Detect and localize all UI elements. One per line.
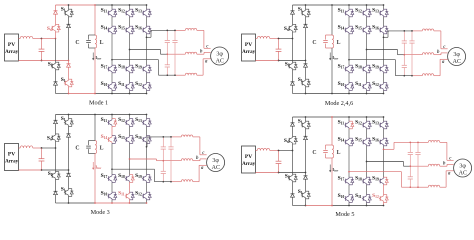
svg-text:Array: Array [5, 160, 19, 165]
Mode 5: junction leg 1 bottom rail [348, 205, 350, 207]
svg-text:Mode 1: Mode 1 [89, 100, 108, 107]
Mode 1: right leg upper wire [68, 5, 70, 9]
Mode 1: filter inductor Lb [185, 52, 197, 54]
Mode 5: junction leg 2 bottom rail [366, 205, 368, 207]
Mode 1: inverter leg 3 wire segment 5 [146, 90, 148, 93]
Mode 1: three-phase AC grid machine [211, 47, 229, 65]
Mode 2,4,6: inverter leg 3 wire segment 3 [383, 34, 385, 65]
Mode 3: inverter leg 3 wire segment 3 [146, 143, 148, 174]
Mode 2,4,6: inverter leg 1 wire segment 3 [348, 34, 350, 65]
svg-text:Iinv: Iinv [95, 164, 101, 170]
Mode 3: left leg upper wire [55, 115, 57, 121]
Mode 3: wire inductor to node A [33, 147, 42, 149]
Mode 5: input capacitor [278, 151, 280, 153]
Mode 3: inverter leg 1 wire segment 5 [111, 200, 113, 203]
Mode 2,4,6: inverter leg 3 wire segment 1 [383, 5, 385, 9]
Mode 2,4,6: bus 3 wire to load terminal a [434, 75, 440, 77]
Mode 3: bottom rail left section [56, 202, 69, 204]
Mode 2,4,6: diode D4 (right leg lower) [305, 61, 307, 64]
svg-text:PV: PV [245, 154, 252, 160]
svg-text:Mode 2,4,6: Mode 2,4,6 [325, 100, 353, 107]
Mode 2,4,6: inverter switch S16 (leg 3 row 2) [383, 26, 385, 27]
Mode 3: inverter leg 2 wire segment 4 [129, 182, 131, 192]
Mode 5: PV array source [242, 146, 256, 173]
Mode 2,4,6: phase bus 1 (top) [388, 30, 412, 32]
Mode 1: left leg middle wire [55, 32, 57, 39]
Mode 1: filter capacitor Cab [166, 30, 168, 40]
Mode 2,4,6: phase tap leg2 to bus2 [367, 49, 398, 51]
Mode 5: switch S3 (right leg bottom) [305, 191, 307, 192]
Mode 2,4,6: left leg middle wire [292, 32, 294, 39]
Mode 2,4,6: filter inductor Lc [422, 74, 434, 76]
Mode 3: inverter leg 3 wire segment 2 [146, 126, 148, 135]
Mode 3: phase tap leg3 to bus1 [146, 146, 149, 148]
Mode 2,4,6: junction leg 2 bottom rail [366, 93, 368, 95]
Mode 5: top rail left section [293, 116, 333, 118]
Mode 3: junction leg 3 top rail [146, 114, 148, 116]
Mode 5: bus 3 wire to load terminal a [440, 186, 446, 188]
Mode 1: junction capacitor bank on bus2 [166, 53, 168, 55]
Mode 1: switch S3 (right leg bottom) [68, 79, 70, 80]
Mode 5: inverter leg 3 wire segment 2 [383, 129, 385, 138]
Mode 2,4,6: filter capacitor Cab [403, 31, 405, 41]
Mode 2,4,6: top rail right section [332, 4, 384, 6]
Mode 1: node B junction [41, 60, 43, 62]
Mode 5: inverter switch S14 (leg 1 row 2) [348, 138, 350, 139]
Mode 5: diode D1 (left leg top) [291, 123, 295, 126]
Mode 5: inverter leg 1 wire segment 3 [348, 146, 350, 177]
svg-text:L: L [100, 145, 104, 151]
Mode 5: junction capacitor bank on bus3 [409, 186, 411, 188]
Mode 2,4,6: inverter leg 2 wire segment 4 [366, 73, 368, 83]
Mode 2,4,6: inverter switch S19 (leg 3 row 3) [383, 65, 385, 66]
Mode 5: inverter leg 1 wire segment 2 [348, 129, 350, 138]
Mode 1: inverter leg 3 wire segment 2 [146, 17, 148, 26]
Mode 2,4,6: junction leg 1 bottom rail [348, 93, 350, 95]
Mode 5: inverter switch S19 (leg 3 row 3) [383, 177, 385, 178]
Mode 3: switch S1 (left leg lower) [55, 172, 57, 173]
Mode 5: inverter switch S10 (leg 1 row 4) [348, 195, 350, 196]
Mode 1: junction leg 2 top rail [129, 4, 131, 6]
Mode 3: junction capacitor bank on bus3 [162, 181, 164, 183]
Mode 2,4,6: inverter leg 2 wire segment 1 [366, 5, 368, 9]
svg-text:Mode 3: Mode 3 [91, 209, 110, 216]
Mode 3: phase bus 1 (top) [147, 136, 171, 138]
Mode 2,4,6: bus 2 wire to load terminal b [434, 54, 441, 56]
Mode 3: inverter switch S11 (leg 2 row 4) [129, 192, 131, 193]
Mode 1: diode D1 (left leg top) [54, 11, 58, 14]
Mode 1: inverter leg 1 wire segment 1 [111, 5, 113, 9]
Mode 1: input capacitor [41, 39, 43, 41]
Mode 2,4,6: bottom rail middle section [306, 93, 333, 95]
Mode 5: wire PV- to node B [256, 172, 279, 174]
Mode 1: inverter switch S11 (leg 1 row 1) [111, 9, 113, 10]
Mode 2,4,6: switch S2 (right leg top) [305, 9, 307, 10]
Mode 3: capacitor C branch [88, 141, 90, 146]
Mode 2,4,6: left leg lower wire [292, 70, 294, 82]
svg-text:L: L [337, 150, 341, 156]
Mode 1: junction leg 1 top rail [111, 4, 113, 6]
Mode 1: junction capacitor bank on bus3 [166, 74, 168, 76]
Mode 3: inverter leg 2 wire segment 3 [129, 143, 131, 174]
Mode 5: junction leg 3 top rail [383, 116, 385, 118]
svg-text:3φ: 3φ [216, 51, 223, 57]
Mode 1: node A junction [41, 38, 43, 40]
svg-text:L: L [337, 40, 341, 46]
Mode 2,4,6: diode D1 (left leg top) [291, 11, 295, 14]
svg-text:Iinv: Iinv [332, 167, 338, 173]
Mode 3: inverter leg 2 wire segment 1 [129, 115, 131, 119]
Mode 3: junction leg 2 top rail [129, 114, 131, 116]
Mode 2,4,6: junction capacitor bank on bus1 [403, 30, 405, 32]
svg-text:PV: PV [245, 42, 252, 48]
Mode 3: inverter leg 2 wire segment 2 [129, 126, 131, 135]
Mode 5: filter capacitor Cab [409, 142, 411, 152]
Mode 1: filter inductor La [185, 28, 197, 30]
Mode 3: top rail right section [95, 114, 147, 116]
svg-text:Array: Array [5, 50, 19, 55]
svg-text:3φ: 3φ [212, 158, 219, 164]
Mode 1: inverter leg 2 wire segment 5 [129, 90, 131, 93]
Mode 2,4,6: dc-link vertical upper [331, 5, 333, 35]
Mode 3: left leg middle wire [55, 142, 57, 149]
Mode 5: junction leg 3 bottom rail [383, 205, 385, 207]
Mode 2,4,6: node B junction [278, 60, 280, 62]
Mode 1: switch Sw [55, 24, 57, 25]
Mode 5: bus 1 wire to load terminal c [440, 141, 447, 143]
Mode 1: diode D2 (left leg bottom) [54, 82, 58, 85]
Mode 5: inductor L branch [332, 145, 334, 158]
Mode 2,4,6: junction leg 1 top rail [348, 4, 350, 6]
Mode 5: node A junction [278, 150, 280, 152]
Mode 3: inverter switch S15 (leg 2 row 2) [129, 136, 131, 137]
Mode 2,4,6: switch S1 (left leg lower) [292, 62, 294, 63]
Mode 3: junction leg 1 bottom rail [111, 202, 113, 204]
Mode 5: node B junction [278, 172, 280, 174]
Mode 3: inverter leg 1 wire segment 1 [111, 115, 113, 119]
Mode 1: inverter switch S14 (leg 1 row 2) [111, 26, 113, 27]
Mode 1: inverter switch S18 (leg 2 row 3) [129, 65, 131, 66]
Mode 3: inverter current arrow Iinv [92, 162, 94, 169]
Mode 3: PV array source [5, 144, 19, 171]
Mode 3: right leg lower wire [68, 177, 70, 189]
Mode 2,4,6: junction leg 3 top rail [383, 4, 385, 6]
Mode 5: filter capacitor Cac [417, 142, 419, 152]
Mode 2,4,6: node A junction [278, 38, 280, 40]
Mode 2,4,6: junction capacitor bank on bus3 [403, 75, 405, 77]
Mode 2,4,6: input inductor Lin [257, 36, 270, 38]
Mode 2,4,6: inverter switch S11 (leg 1 row 1) [348, 9, 350, 10]
Mode 2,4,6: inverter switch S13 (leg 3 row 1) [383, 9, 385, 10]
Mode 1: bottom rail right section b [130, 93, 147, 95]
Mode 5: junction capacitor bank on bus1 [409, 142, 411, 144]
Mode 5: switch S2 (right leg top) [305, 121, 307, 122]
Mode 5: inverter switch S13 (leg 3 row 1) [383, 121, 385, 122]
Mode 2,4,6: filter inductor Lb [422, 53, 434, 55]
Mode 3: diode D3 (right leg upper) [67, 134, 71, 137]
Mode 1: top rail left section [56, 4, 96, 6]
Mode 2,4,6: input capacitor [278, 39, 280, 41]
Mode 1: phase bus 1 (top) [151, 29, 175, 31]
Mode 5: inverter leg 2 wire segment 4 [366, 185, 368, 195]
Mode 3: bottom rail middle section [69, 202, 96, 204]
Mode 1: phase bus 2 (middle) [161, 53, 168, 55]
Mode 3: filter inductor Lc [181, 180, 193, 182]
Mode 5: inverter leg 2 wire segment 2 [366, 129, 368, 138]
Mode 5: left leg upper wire [292, 117, 294, 123]
Mode 3: junction leg 1 top rail [111, 114, 113, 116]
Mode 1: junction leg 1 bottom rail [111, 93, 113, 95]
Mode 3: inverter switch S10 (leg 1 row 4) [111, 192, 113, 193]
Mode 5: inverter switch S11 (leg 1 row 1) [348, 121, 350, 122]
Mode 3: inverter switch S18 (leg 2 row 3) [129, 175, 131, 176]
Mode 3: input inductor Lin [20, 146, 33, 148]
Mode 2,4,6: inverter switch S17 (leg 1 row 3) [348, 65, 350, 66]
Mode 1: inverter leg 1 wire segment 2 [111, 17, 113, 26]
Mode 3: junction capacitor bank on bus2 [162, 160, 164, 162]
Mode 5: diode D3 (right leg upper) [304, 136, 308, 139]
svg-text:C: C [75, 40, 79, 46]
Mode 3: inductor L branch [95, 141, 97, 154]
Mode 5: junction leg 1 top rail [348, 116, 350, 118]
svg-text:C: C [312, 40, 316, 46]
Mode 5: inverter leg 1 wire segment 4 [348, 185, 350, 195]
Mode 3: wire PV- to node B [19, 169, 42, 171]
Mode 1: wire node B to right bridge leg [42, 60, 69, 62]
Mode 1: inverter leg 3 wire segment 4 [146, 73, 148, 83]
Mode 5: switch Sw [292, 136, 294, 137]
Mode 2,4,6: dc-link vertical lower [331, 48, 333, 94]
Mode 3: bus 2 wire to load terminal b [193, 160, 200, 162]
Mode 3: inverter leg 1 wire segment 2 [111, 126, 113, 135]
svg-text:3φ: 3φ [453, 52, 460, 58]
Mode 1: filter inductor Lc [185, 73, 197, 75]
svg-text:AC: AC [459, 170, 467, 176]
Mode 3: inverter leg 3 wire segment 1 [146, 115, 148, 119]
Mode 2,4,6: inverter leg 3 wire segment 2 [383, 17, 385, 26]
Mode 3: wire node B to right bridge leg [42, 169, 69, 171]
Mode 3: inverter switch S14 (leg 1 row 2) [111, 136, 113, 137]
Mode 5: diode D2 (left leg bottom) [291, 194, 295, 197]
Mode 5: inverter leg 1 wire segment 5 [348, 202, 350, 205]
Mode 3: switch S3 (right leg bottom) [68, 189, 70, 190]
Mode 2,4,6: inverter switch S12 (leg 2 row 1) [366, 9, 368, 10]
Mode 1: inverter leg 1 wire segment 4 [111, 73, 113, 83]
Mode 5: left leg middle wire [292, 144, 294, 151]
Mode 5: input inductor Lin [257, 148, 270, 150]
svg-text:3φ: 3φ [459, 163, 466, 169]
Mode 1: junction leg 2 bottom rail [129, 93, 131, 95]
Mode 2,4,6: wire node A to left bridge leg [279, 38, 293, 40]
Mode 3: filter capacitor Cab [162, 137, 164, 147]
Mode 2,4,6: wire PV+ to input inductor [256, 38, 258, 40]
Mode 1: inverter switch S15 (leg 2 row 2) [129, 26, 131, 27]
Mode 5: wire node A to left bridge leg [279, 150, 293, 152]
Mode 1: inverter current arrow Iinv [92, 53, 94, 60]
Mode 1: right leg lower wire [68, 67, 70, 79]
Mode 1: junction leg 3 bottom rail [146, 93, 148, 95]
svg-text:C: C [312, 150, 316, 156]
Mode 3: input capacitor [41, 148, 43, 150]
Mode 3: bus 1 wire to load terminal c [193, 136, 200, 138]
Mode 5: inverter switch S12 (leg 3 row 4) [383, 195, 385, 196]
Mode 5: switch S1 (left leg lower) [292, 174, 294, 175]
Mode 1: wire PV- to node B [19, 60, 42, 62]
Mode 1: junction leg 3 top rail [146, 4, 148, 6]
svg-text:AC: AC [453, 59, 461, 65]
Mode 5: capacitor C branch [325, 145, 327, 150]
Mode 3: junction capacitor bank on bus1 [162, 136, 164, 138]
Mode 1: bus 2 wire to load terminal b [197, 53, 204, 55]
Mode 3: diode D1 (left leg top) [54, 120, 58, 123]
svg-text:AC: AC [216, 58, 224, 64]
Mode 2,4,6: inverter leg 1 wire segment 5 [348, 90, 350, 93]
Mode 1: wire PV+ to input inductor [19, 38, 21, 40]
Mode 2,4,6: diode D2 (left leg bottom) [291, 82, 295, 85]
svg-text:C: C [75, 145, 79, 151]
Mode 1: inverter switch S17 (leg 1 row 3) [111, 65, 113, 66]
Mode 3: node B junction [41, 169, 43, 171]
Mode 3: filter capacitor Cac [170, 137, 172, 147]
Mode 5: filter inductor Lc [428, 185, 440, 187]
Mode 2,4,6: wire PV- to node B [256, 60, 279, 62]
Mode 2,4,6: right leg upper wire [305, 5, 307, 9]
Mode 5: inverter leg 3 wire segment 4 [383, 185, 385, 195]
Mode 2,4,6: phase tap leg1 to bus3 [349, 59, 396, 61]
Mode 2,4,6: switch Sw [292, 24, 294, 25]
Mode 2,4,6: phase tap leg3 to bus1 [384, 36, 389, 38]
Mode 1: dc-link vertical lower [94, 48, 96, 94]
Mode 1: left leg upper wire [55, 5, 57, 11]
svg-text:Mode 5: Mode 5 [335, 211, 354, 218]
Mode 2,4,6: inverter switch S10 (leg 1 row 4) [348, 83, 350, 84]
Mode 1: inverter leg 2 wire segment 1 [129, 5, 131, 9]
Mode 1: junction capacitor bank on bus1 [166, 30, 168, 32]
Mode 5: filter capacitor Cbc [409, 166, 411, 176]
Mode 1: phase tap leg1 to bus3 [112, 59, 159, 61]
Mode 2,4,6: C parallel L block stubs [326, 34, 333, 36]
Mode 3: dc-link vertical lower [94, 154, 96, 204]
Mode 2,4,6: switch S3 (right leg bottom) [305, 79, 307, 80]
Mode 5: dc-link vertical upper [331, 117, 333, 145]
Mode 1: diode D3 (right leg upper) [67, 24, 71, 27]
Mode 3: inverter switch S11 (leg 1 row 1) [111, 119, 113, 120]
Mode 5: right leg lower wire [305, 179, 307, 191]
Mode 2,4,6: bottom rail right section b [367, 93, 384, 95]
Mode 1: bus 3 wire to load terminal a [197, 74, 203, 76]
Mode 3: inverter switch S13 (leg 3 row 1) [146, 119, 148, 120]
Mode 5: inverter leg 2 wire segment 5 [366, 202, 368, 205]
Mode 5: inverter current arrow Iinv [329, 165, 331, 172]
Mode 5: bottom rail middle section [306, 205, 333, 207]
Mode 2,4,6: inverter leg 1 wire segment 4 [348, 73, 350, 83]
Mode 5: diode D4 (right leg lower) [305, 173, 307, 176]
svg-text:L: L [100, 40, 104, 46]
Mode 2,4,6: inductor L branch [332, 35, 334, 48]
Mode 5: top rail right section [332, 116, 384, 118]
Mode 1: bottom rail right section a [95, 93, 130, 95]
Mode 5: inverter leg 3 wire segment 3 [383, 146, 385, 177]
Mode 2,4,6: inverter switch S11 (leg 2 row 4) [366, 83, 368, 84]
Mode 2,4,6: filter inductor La [422, 29, 434, 31]
Mode 2,4,6: wire inductor to node A [270, 38, 279, 40]
Mode 1: inverter leg 1 wire segment 5 [111, 90, 113, 93]
Mode 1: bottom rail middle section [69, 93, 96, 95]
Mode 2,4,6: junction leg 3 bottom rail [383, 93, 385, 95]
Mode 1: inverter leg 2 wire segment 2 [129, 17, 131, 26]
Mode 1: bottom rail left section [56, 93, 69, 95]
Mode 5: right leg upper wire [305, 117, 307, 121]
Mode 5: inverter leg 3 wire segment 1 [383, 117, 385, 121]
Mode 2,4,6: inverter leg 2 wire segment 3 [366, 34, 368, 65]
Mode 3: bottom rail right section b [130, 202, 147, 204]
Mode 1: wire inductor to node A [33, 38, 42, 40]
svg-text:PV: PV [8, 151, 15, 157]
Mode 3: bus 3 wire to load terminal a [193, 181, 199, 183]
Mode 5: inverter leg 1 wire segment 1 [348, 117, 350, 121]
Mode 3: phase tap leg1 to bus3 [112, 168, 155, 170]
Mode 3: dc-link vertical upper [94, 115, 96, 141]
Mode 1: top rail right section [95, 4, 147, 6]
Mode 3: wire PV+ to input inductor [19, 147, 21, 149]
Mode 5: inverter leg 2 wire segment 3 [366, 146, 368, 177]
Mode 5: three-phase AC grid machine [454, 159, 472, 177]
Mode 5: inverter switch S18 (leg 2 row 3) [366, 177, 368, 178]
Mode 3: inverter leg 3 wire segment 5 [146, 200, 148, 203]
Mode 3: node A junction [41, 147, 43, 149]
Mode 5: inverter leg 2 wire segment 1 [366, 117, 368, 121]
Mode 5: phase tap leg2 to bus2 [367, 161, 404, 163]
Mode 3: wire node A to left bridge leg [42, 147, 56, 149]
Mode 2,4,6: inverter current arrow Iinv [329, 53, 331, 60]
Mode 2,4,6: right leg lower wire [305, 67, 307, 79]
Mode 3: switch S2 (right leg top) [68, 119, 70, 120]
Mode 2,4,6: inverter leg 3 wire segment 5 [383, 90, 385, 93]
Mode 1: inverter leg 2 wire segment 4 [129, 73, 131, 83]
Mode 1: inverter switch S11 (leg 2 row 4) [129, 83, 131, 84]
Mode 1: PV array source [5, 34, 19, 61]
Mode 5: phase tap leg1 to bus3 [349, 171, 402, 173]
svg-text:PV: PV [8, 42, 15, 48]
svg-text:Iinv: Iinv [332, 55, 338, 61]
Mode 3: filter inductor Lb [181, 159, 193, 161]
Mode 3: inverter leg 1 wire segment 4 [111, 182, 113, 192]
Mode 2,4,6: phase bus 2 (middle) [398, 54, 405, 56]
Mode 1: wire node A to left bridge leg [42, 38, 56, 40]
Mode 2,4,6: inverter leg 3 wire segment 4 [383, 73, 385, 83]
Mode 3: top rail left section [56, 114, 96, 116]
Mode 2,4,6: left leg upper wire [292, 5, 294, 11]
Mode 2,4,6: inverter switch S15 (leg 2 row 2) [366, 26, 368, 27]
Mode 3: inverter switch S17 (leg 1 row 3) [111, 175, 113, 176]
Mode 3: filter capacitor Cbc [162, 161, 164, 171]
Mode 3: bottom rail right section a [95, 202, 130, 204]
Mode 2,4,6: bus 1 wire to load terminal c [434, 30, 441, 32]
Mode 1: filter capacitor Cbc [166, 54, 168, 64]
Mode 2,4,6: junction leg 2 top rail [366, 4, 368, 6]
Mode 5: wire node B to right bridge leg [279, 172, 306, 174]
Mode 3: diode D4 (right leg lower) [68, 170, 70, 173]
Mode 2,4,6: inverter switch S14 (leg 1 row 2) [348, 26, 350, 27]
Mode 5: left leg lower wire [292, 182, 294, 194]
Mode 5: inverter switch S12 (leg 2 row 1) [366, 121, 368, 122]
Mode 3: diode D2 (left leg bottom) [54, 191, 58, 194]
Mode 3: left leg lower wire [55, 179, 57, 191]
svg-text:Iinv: Iinv [95, 55, 101, 61]
Mode 3: phase tap leg2 to bus2 [130, 158, 157, 160]
Mode 2,4,6: inverter switch S12 (leg 3 row 4) [383, 83, 385, 84]
Mode 5: phase tap leg3 to bus1 [384, 148, 395, 150]
